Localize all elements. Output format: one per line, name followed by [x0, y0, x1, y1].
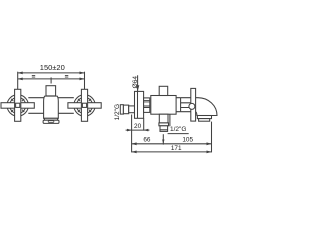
- left handle outer circle: [7, 95, 28, 116]
- centerline tick: [50, 77, 52, 83]
- left handle inner circle: [10, 97, 26, 113]
- union nut: [123, 105, 128, 114]
- right handle inner circle: [76, 97, 92, 113]
- wall plate: [135, 91, 144, 118]
- spout tip extension line: [211, 122, 213, 153]
- equal mark left: [32, 75, 35, 77]
- right handle outer circle: [74, 95, 95, 116]
- dimension line equal spacing: [18, 78, 85, 80]
- body barrel: [28, 98, 74, 114]
- right handle knurl marks: [78, 99, 91, 112]
- outlet notch: [48, 121, 54, 123]
- dim 20 line: [126, 129, 150, 131]
- svg-text:66: 66: [143, 136, 151, 143]
- dim 20 extension left: [131, 115, 133, 153]
- spout flange: [44, 118, 57, 120]
- connection rings: [144, 98, 150, 113]
- spout tube top/bottom: [181, 98, 191, 112]
- equal mark right: [65, 75, 68, 77]
- spout outlet nozzle: [197, 116, 211, 119]
- diverter nipple: [160, 126, 168, 132]
- handle stem: [181, 103, 191, 108]
- spout root: [176, 98, 181, 112]
- svg-text:105: 105: [182, 136, 193, 143]
- handle knob: [159, 86, 168, 95]
- diverter housing: [159, 114, 168, 123]
- spout outlet tip: [199, 119, 210, 122]
- dim 20 extension right (plate edge extended): [143, 118, 145, 130]
- svg-text:20: 20: [134, 123, 142, 130]
- cartridge cap: [46, 86, 56, 96]
- dimension line 150±20: [18, 72, 85, 74]
- diameter leader line: [137, 75, 139, 91]
- valve body: [151, 96, 176, 115]
- extension line left: [17, 72, 19, 90]
- wall flange: [120, 105, 123, 114]
- handle front arm circle: [189, 103, 195, 109]
- handle bar edge-on: [191, 88, 196, 121]
- left handle center boss: [16, 103, 20, 107]
- right handle horizontal arm: [68, 103, 101, 109]
- bell body: [44, 96, 59, 118]
- right handle center boss: [82, 103, 86, 107]
- spout outlet: [43, 120, 59, 123]
- svg-text:150±20: 150±20: [40, 63, 65, 72]
- right handle vertical arm: [81, 89, 87, 121]
- extension line right: [84, 72, 86, 90]
- dim 171 line: [132, 151, 212, 153]
- spout elbow: [196, 98, 217, 116]
- left handle knurl marks: [11, 99, 24, 112]
- left handle vertical arm: [15, 89, 21, 121]
- dim 66/105 line: [132, 143, 212, 145]
- diverter ring: [159, 123, 169, 126]
- svg-text:171: 171: [171, 145, 182, 152]
- supply pipe: [129, 106, 135, 113]
- svg-text:1/2"G: 1/2"G: [170, 126, 186, 133]
- divider tick at diverter center: [162, 134, 164, 144]
- left handle horizontal arm: [1, 103, 34, 109]
